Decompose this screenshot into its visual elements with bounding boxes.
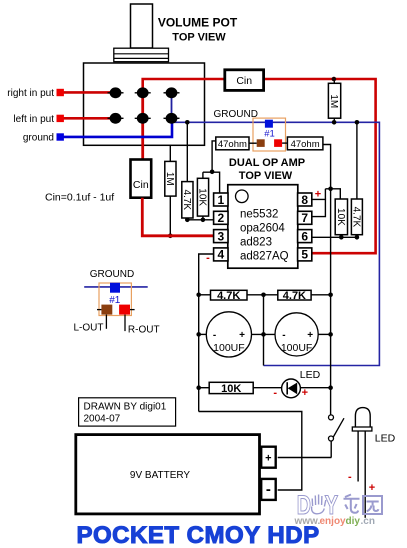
LED physical: dome — [352, 408, 372, 518]
resistor 4.7K (left horizontal) — [199, 290, 278, 302]
resistor 1M (left, below pot) — [164, 146, 176, 236]
pin 6 — [298, 229, 312, 243]
junction 10K bottom — [201, 218, 206, 223]
svg-text:TOP VIEW: TOP VIEW — [172, 32, 226, 44]
svg-text:Cin: Cin — [236, 75, 252, 87]
svg-text:4.7K: 4.7K — [181, 190, 192, 211]
svg-text:VOLUME POT: VOLUME POT — [158, 16, 238, 30]
headphone jack #1 (top) box — [253, 118, 286, 151]
resistor 47ohm (left) — [216, 137, 249, 150]
svg-text:GROUND: GROUND — [214, 109, 258, 120]
watermark DIY — [297, 490, 338, 520]
svg-text:7: 7 — [301, 211, 308, 225]
junction 4.7K-right / ground line — [355, 120, 360, 125]
svg-text:1: 1 — [217, 193, 224, 207]
svg-text:100UF: 100UF — [213, 342, 245, 354]
capacitor 100UF (left) — [199, 312, 278, 357]
svg-text:10K: 10K — [197, 188, 208, 206]
svg-text:ad823: ad823 — [240, 236, 272, 248]
battery - terminal — [261, 479, 276, 500]
pot bushing — [114, 48, 169, 62]
svg-text:DUAL OP AMP: DUAL OP AMP — [229, 157, 305, 169]
junction 10K-right bottom — [339, 235, 344, 240]
junction V+ rail / LED — [328, 385, 333, 390]
svg-text:Cin=0.1uf - 1uf: Cin=0.1uf - 1uf — [45, 192, 114, 204]
wire 47ohm-right to V+ rail corner — [323, 145, 331, 189]
svg-text:2004-07: 2004-07 — [84, 414, 121, 425]
svg-text:-: - — [282, 330, 285, 341]
svg-text:POCKET CMOY HDP: POCKET CMOY HDP — [77, 522, 320, 548]
svg-text:Cin: Cin — [133, 179, 149, 191]
svg-text:ad827AQ: ad827AQ — [240, 250, 289, 262]
resistor 47ohm (right) — [287, 137, 323, 150]
svg-text:10K: 10K — [221, 383, 241, 395]
LED symbol — [282, 379, 331, 398]
pot pin 4 — [108, 113, 124, 124]
input square red R — [57, 89, 64, 96]
pot pin 1 — [108, 87, 124, 98]
svg-text:+: + — [239, 330, 245, 341]
pot pin 3 — [164, 87, 180, 98]
svg-text:-: - — [348, 471, 352, 483]
junction left rail / 100UF — [196, 332, 201, 337]
wire pin8 and pin7 join — [312, 199, 326, 216]
resistor 4.7K (right horizontal) — [278, 290, 331, 302]
wire battery plus to switch — [278, 457, 332, 459]
wire T junction to 10K top and pin 1 — [203, 172, 220, 193]
jack legend: red square — [119, 305, 130, 315]
wire red: pot col2 down to Cin2 — [141, 93, 144, 160]
watermark 乐园 — [344, 495, 383, 515]
svg-text:LED: LED — [375, 433, 396, 445]
svg-text:8: 8 — [301, 193, 308, 207]
capacitor 100UF (right) — [275, 313, 331, 356]
jack top: brown square — [257, 139, 265, 147]
wire pin2 to 4.7K/10K bottoms — [187, 219, 213, 221]
svg-text:1M: 1M — [164, 172, 175, 186]
input wire red left — [63, 117, 116, 120]
junction red rail / 1M — [332, 77, 337, 82]
junction 1M-left / red pin3 wire — [168, 234, 173, 239]
svg-text:right in put: right in put — [7, 88, 54, 99]
volume pot shaft — [131, 4, 153, 48]
jack legend side stubs — [97, 309, 101, 311]
pot body — [84, 63, 205, 145]
wire red: Cin right to rail corner down to pin5 — [264, 79, 376, 253]
junction 1M / ground line — [332, 120, 337, 125]
pin 3 — [214, 229, 228, 243]
svg-text:3: 3 — [217, 229, 224, 243]
svg-text:.cn: .cn — [361, 516, 375, 527]
junction 4.7K-left / ground line — [185, 120, 190, 125]
resistor 4.7K (right vertical) — [350, 122, 362, 237]
input wire blue ground — [63, 118, 172, 137]
svg-text:100UF: 100UF — [281, 342, 313, 354]
svg-text:-: - — [213, 330, 216, 341]
input square red L — [57, 115, 64, 122]
wire red: pot wiper up and right to Cin — [143, 79, 225, 93]
svg-text:9V BATTERY: 9V BATTERY — [130, 470, 191, 481]
junction V+ rail / 100UF right — [328, 332, 333, 337]
wire pin4 to left rail down — [199, 254, 214, 412]
IC pin1 marker circle — [236, 190, 249, 203]
jack legend: brown square — [101, 305, 112, 315]
svg-text:TOP VIEW: TOP VIEW — [239, 170, 293, 182]
input square blue gnd — [57, 133, 64, 140]
junction 4.7K bottom — [185, 218, 190, 223]
svg-text:ne5532: ne5532 — [240, 208, 278, 220]
svg-text:+: + — [265, 453, 271, 465]
svg-text:diy: diy — [346, 516, 361, 527]
pin 7 — [298, 211, 312, 225]
junction mid rail / 100UF — [261, 332, 266, 337]
wire pin6 to 10K/4.7K bottoms — [312, 236, 357, 238]
svg-text:2: 2 — [217, 211, 224, 225]
svg-text:opa2604: opa2604 — [240, 222, 285, 234]
resistor 4.7K (left vertical) — [181, 122, 193, 220]
svg-text:1M: 1M — [328, 94, 339, 108]
junction left rail / 4.7K — [196, 293, 201, 298]
svg-text:#1: #1 — [109, 295, 121, 306]
pin 1 — [214, 193, 228, 207]
svg-text:5: 5 — [301, 248, 308, 262]
pin 2 — [214, 211, 228, 225]
resistor 10K (right vertical) — [335, 199, 348, 237]
wire junction row to 10K-right top — [325, 189, 340, 199]
resistor 1M (right of Cin) — [328, 79, 341, 122]
wire 47ohm-left stub down to T junction — [212, 141, 216, 172]
junction 4.7K-right bottom — [355, 235, 360, 240]
jack top: red square — [274, 139, 282, 147]
svg-text:L-OUT: L-OUT — [74, 323, 104, 334]
svg-text:+: + — [302, 387, 308, 399]
svg-text:DRAWN BY digi01: DRAWN BY digi01 — [84, 402, 167, 413]
headphone jack #1 (legend) box — [99, 283, 131, 316]
resistor 10K (horizontal) — [199, 382, 282, 395]
wire red Cin bottom to pin 3 — [142, 198, 213, 236]
jack top: blue square (ground pin) — [265, 120, 273, 128]
svg-text:47ohm: 47ohm — [291, 139, 320, 150]
svg-text:GROUND: GROUND — [90, 269, 134, 280]
junction V+ rail / 4.7K right — [328, 293, 333, 298]
pot pin 6 — [164, 113, 180, 124]
junction V+ rail / pin8 — [328, 187, 333, 192]
svg-text:4.7K: 4.7K — [283, 290, 306, 302]
ground distribution line blue — [174, 122, 379, 365]
pin 5 — [298, 248, 312, 262]
svg-text:10K: 10K — [335, 208, 346, 226]
svg-text:#1: #1 — [264, 128, 275, 139]
resistor 10K (left vertical) — [197, 178, 209, 220]
switch — [329, 415, 345, 458]
svg-text:4.7K: 4.7K — [217, 290, 240, 302]
DRAWN BY box — [79, 398, 176, 426]
virtual ground rail (middle) — [263, 295, 265, 366]
svg-text:LED: LED — [300, 369, 321, 381]
wire red square to 47ohm-right — [282, 142, 287, 144]
svg-text:+: + — [369, 482, 375, 494]
svg-text:R-OUT: R-OUT — [128, 325, 160, 336]
wire left rail bottom to battery minus riser — [199, 412, 302, 491]
wire 47ohm-left to brown square — [249, 142, 257, 144]
wire blue between col3 pins — [171, 93, 173, 119]
svg-text:4: 4 — [217, 248, 224, 262]
battery 9V box — [76, 435, 260, 514]
jack legend: blue square — [110, 283, 120, 293]
battery + terminal — [261, 447, 276, 468]
svg-text:-: - — [266, 481, 271, 498]
capacitor Cin (bottom, vertical) — [131, 160, 152, 198]
jack legend blue line — [84, 286, 148, 288]
pin 8 — [298, 193, 312, 207]
svg-text:-: - — [273, 387, 277, 399]
svg-text:ground: ground — [23, 132, 54, 143]
op-amp IC body — [228, 185, 298, 269]
pin 4 — [214, 248, 228, 262]
pot pin 2 — [135, 87, 151, 98]
svg-text:47ohm: 47ohm — [218, 139, 247, 150]
jack legend lead R — [124, 315, 126, 332]
input wire red right — [63, 91, 116, 94]
junction divider mid / 4.7K — [261, 293, 266, 298]
jack legend lead L — [105, 315, 107, 329]
svg-text:4.7K: 4.7K — [350, 207, 361, 228]
junction T (47ohm/10K/pin1) — [210, 170, 215, 175]
V+ rail vertical — [330, 189, 332, 388]
capacitor Cin (top) — [225, 70, 264, 91]
watermark url — [294, 516, 375, 527]
V+ rail down to switch — [330, 388, 332, 415]
svg-text:enjoy: enjoy — [320, 516, 347, 527]
junction left rail / 10K — [196, 385, 201, 390]
svg-text:left in put: left in put — [13, 114, 54, 125]
pot pin 5 — [135, 113, 151, 124]
svg-text:6: 6 — [301, 229, 308, 243]
svg-text:+: + — [307, 330, 313, 341]
